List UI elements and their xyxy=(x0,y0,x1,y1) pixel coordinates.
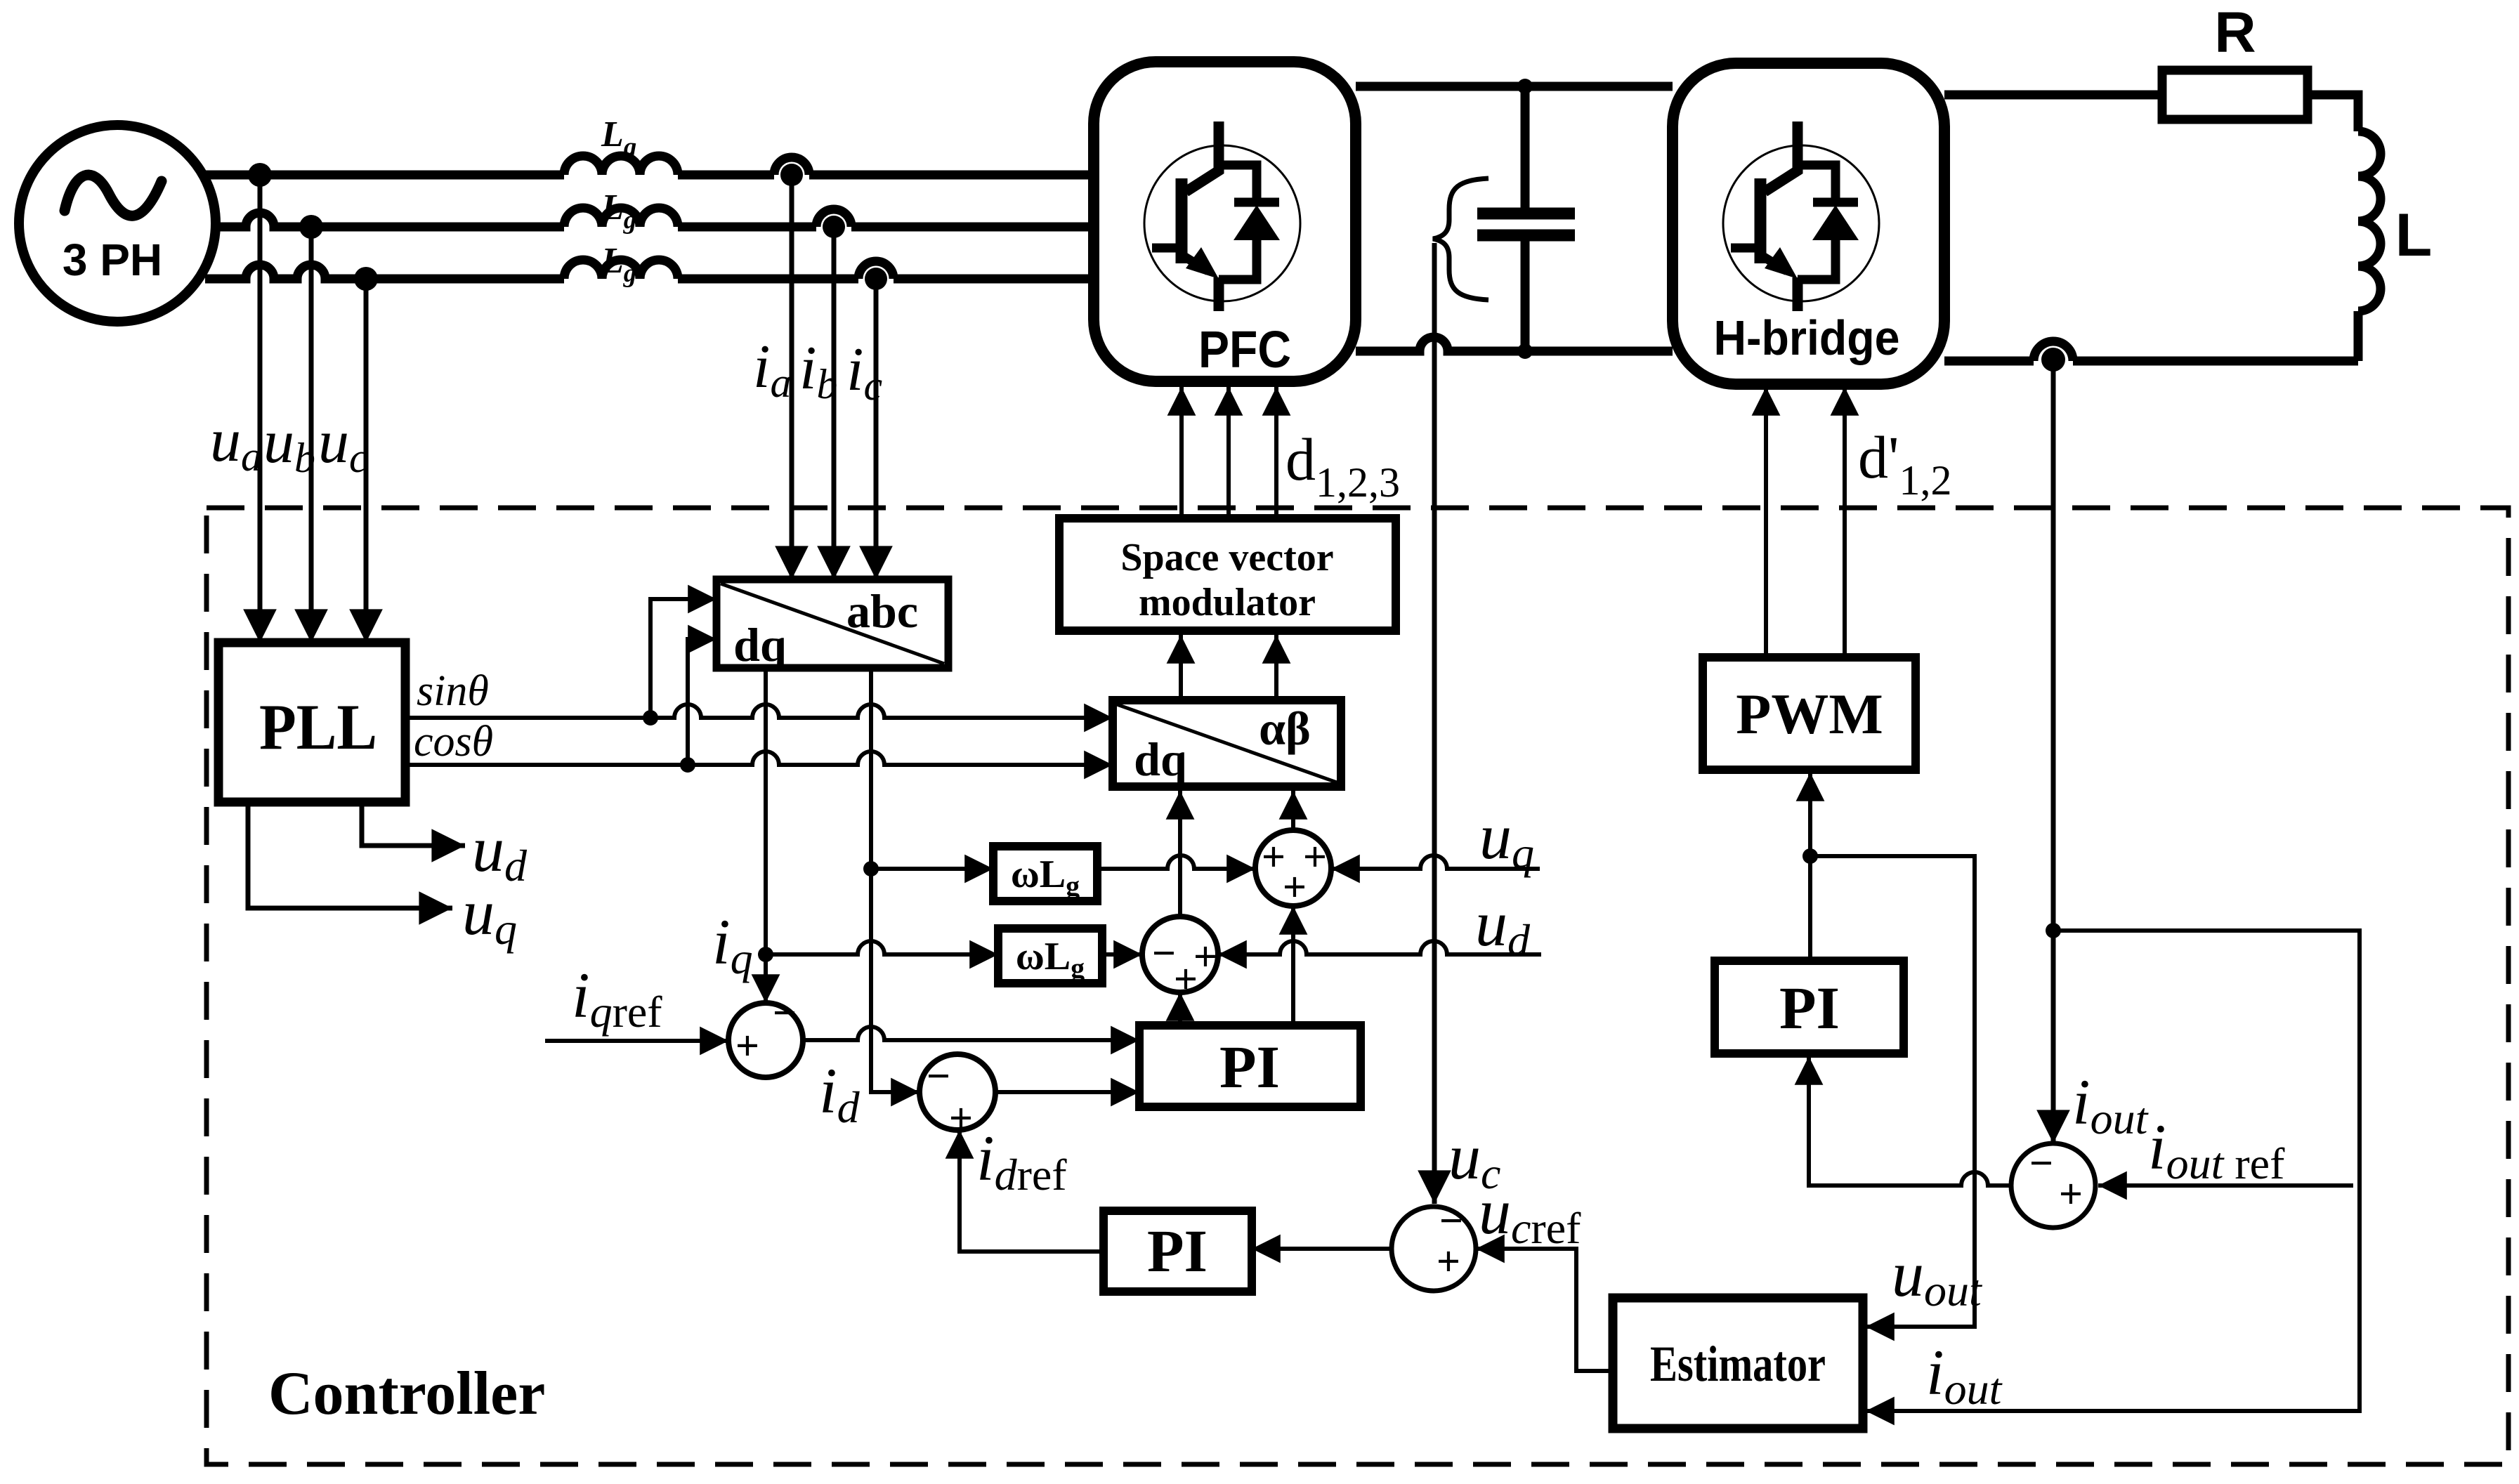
svg-text:PI: PI xyxy=(1779,974,1840,1042)
svg-text:−: − xyxy=(773,990,797,1036)
wire: iout error left and up into PI with hop over uout line xyxy=(1809,1056,2011,1186)
node iq junction xyxy=(758,947,773,962)
wire: idref from PI up into id summing junction xyxy=(960,1130,1104,1252)
summing junction +++ xyxy=(1255,830,1331,910)
svg-text:PWM: PWM xyxy=(1736,682,1883,746)
wire: cos(theta) from PLL to dq/ab with hops xyxy=(405,751,1113,765)
svg-text:PI: PI xyxy=(1219,1033,1280,1101)
svg-text:−: − xyxy=(927,1053,950,1099)
node capacitor bottom junction xyxy=(1517,343,1533,359)
wire: sin(theta) riser to dq/abc xyxy=(650,599,717,718)
wire: -++ output up to dq/ab xyxy=(1178,791,1182,917)
svg-text:PLL: PLL xyxy=(259,691,377,763)
wire: ub sense line to PLL xyxy=(309,227,314,643)
svg-text:R: R xyxy=(2214,1,2256,65)
wire: uc error to PI voltage controller xyxy=(1252,1247,1392,1251)
wire: ia sense line to dq/abc xyxy=(790,177,794,579)
wire: PLL ud output xyxy=(362,802,465,846)
wire: uout branch down to Estimator xyxy=(1810,856,1975,1327)
brace for uc measurement xyxy=(1433,178,1488,300)
wire: resistor to inductor L xyxy=(2308,95,2358,131)
wire: PWM gate signal d'1 to H-bridge xyxy=(1764,387,1768,657)
wire: PWM gate signal d'2 to H-bridge xyxy=(1843,387,1847,657)
wire: iq to lower wLg with hop over id line xyxy=(766,941,998,954)
block PI voltage controller xyxy=(1104,1211,1252,1292)
wire: uc sense line to PLL xyxy=(364,279,369,643)
IGBT symbol inside H-bridge xyxy=(1723,122,1879,311)
wire: id output of dq/abc down and into id summing junction xyxy=(871,668,920,1092)
wire: PLL uq output xyxy=(248,802,452,908)
wire: load bottom return to H-bridge with iout sensor gap xyxy=(1944,311,2358,361)
block dq/ab transform xyxy=(1113,700,1341,787)
inductor Lg (phase A) xyxy=(564,156,678,175)
3-phase source circle "3 PH" xyxy=(19,125,216,322)
node uc tap on phase C xyxy=(354,267,378,291)
IGBT symbol inside PFC xyxy=(1144,122,1300,311)
current sensor ia on phase A xyxy=(774,157,809,186)
current sensor ic on phase C xyxy=(858,261,894,290)
block wLg upper xyxy=(993,846,1097,902)
wire: iq error to PI with hop over id line xyxy=(803,1027,1139,1040)
wire: ud feedforward into -++ junction with hops xyxy=(1218,941,1541,954)
wire: modulator gate signal d3 to PFC xyxy=(1274,387,1278,518)
summing junction -++ xyxy=(1142,917,1218,1002)
summing junction iq (+,-) xyxy=(728,990,803,1077)
svg-text:L: L xyxy=(2395,202,2433,269)
wire: modulator gate signal d2 to PFC xyxy=(1226,387,1231,518)
block PI current controller xyxy=(1139,1025,1361,1107)
block wLg lower xyxy=(998,928,1102,984)
svg-text:sinθ: sinθ xyxy=(417,667,489,715)
block Space vector modulator xyxy=(1059,518,1396,631)
summing junction id (-,+) xyxy=(920,1053,995,1141)
wire: DC top bus PFC to H-bridge xyxy=(1356,82,1673,91)
capacitor C (DC link) xyxy=(1477,86,1575,351)
wire: uq feedforward into +++ junction with hop over uc line xyxy=(1331,855,1540,869)
svg-text:PFC: PFC xyxy=(1198,320,1291,379)
wire: iout sense line down to summing junction xyxy=(2051,361,2056,1143)
summing junction iout (-,+) xyxy=(2011,1140,2095,1228)
summing junction uc (-,+) xyxy=(1392,1197,1476,1291)
svg-text:+: + xyxy=(1174,956,1198,1002)
wire: id error to PI xyxy=(995,1090,1139,1094)
node iout branch junction xyxy=(2046,923,2061,938)
svg-text:Controller: Controller xyxy=(268,1360,545,1428)
node capacitor top junction xyxy=(1517,79,1533,94)
converter PFC block xyxy=(1094,62,1356,381)
svg-text:dq: dq xyxy=(733,618,787,671)
wire: iout branch right and down to Estimator xyxy=(1866,931,2360,1411)
svg-text:−: − xyxy=(1152,930,1176,976)
wire: iq output of dq/abc down to summing junction xyxy=(764,668,768,1003)
node ub tap on phase B xyxy=(299,215,323,239)
svg-text:H-bridge: H-bridge xyxy=(1714,310,1900,365)
svg-text:Estimator: Estimator xyxy=(1650,1336,1826,1392)
block PI output current controller xyxy=(1715,961,1904,1053)
svg-text:+: + xyxy=(1437,1238,1460,1285)
wire: phase A with Lg inductor gap and current-sensor gap xyxy=(205,171,1094,180)
inductor L (load) xyxy=(2358,131,2381,311)
current sensor iout on return wire xyxy=(2034,341,2073,372)
wire: +++ output up to dq/ab xyxy=(1291,791,1295,830)
svg-text:+: + xyxy=(1283,864,1307,910)
svg-text:cosθ: cosθ xyxy=(414,718,493,766)
svg-text:modulator: modulator xyxy=(1139,581,1316,624)
wire: ioutref input xyxy=(2098,1183,2353,1188)
resistor R xyxy=(2162,70,2308,119)
controller dashed boundary xyxy=(207,508,2508,1464)
svg-text:+: + xyxy=(735,1023,759,1069)
wire: phase B with hop over ua line, Lg gap, sensor gap xyxy=(215,213,1094,227)
wire: uc sense line down to controller xyxy=(1432,243,1437,1204)
wire: dq/ab beta output to modulator xyxy=(1274,635,1278,700)
wire: ic sense line to dq/abc xyxy=(874,281,879,579)
svg-text:αβ: αβ xyxy=(1259,702,1311,755)
inductor Lg (phase B) xyxy=(564,208,678,227)
wire: PI output up to PWM xyxy=(1808,773,1812,961)
inductor Lg (phase C) xyxy=(564,260,678,279)
current sensor ib on phase B xyxy=(816,209,851,238)
node cos(theta) junction xyxy=(680,757,695,773)
node sin(theta) junction xyxy=(643,710,658,725)
svg-text:abc: abc xyxy=(846,584,918,638)
wire: PI output up to -++ junction xyxy=(1178,992,1182,1025)
wire: dq/ab alpha output to modulator xyxy=(1179,635,1183,700)
block PWM xyxy=(1703,657,1916,770)
block Estimator xyxy=(1613,1298,1863,1429)
wire: ib sense line to dq/abc xyxy=(832,229,837,579)
converter H-bridge block xyxy=(1673,63,1944,384)
node uout tap junction xyxy=(1802,848,1818,864)
wire: H-bridge output top to resistor xyxy=(1944,91,2162,100)
wire: PI output up to +++ junction xyxy=(1291,906,1295,1025)
svg-text:−: − xyxy=(2029,1140,2053,1186)
svg-text:dq: dq xyxy=(1134,733,1187,786)
wire: ucref from Estimator into uc junction xyxy=(1476,1249,1613,1371)
wire: iqref input xyxy=(545,1039,728,1043)
wire: id to upper wLg xyxy=(871,867,993,871)
block dq/abc transform xyxy=(717,579,948,671)
node ua tap on phase A xyxy=(248,163,272,187)
svg-text:3 PH: 3 PH xyxy=(63,235,162,285)
wire: cos(theta) riser to dq/abc xyxy=(688,639,717,765)
node id junction xyxy=(863,861,879,876)
svg-text:Space vector: Space vector xyxy=(1120,536,1333,579)
wire: ua sense line to PLL xyxy=(258,175,263,643)
svg-text:+: + xyxy=(2059,1171,2083,1217)
wire: upper wLg output to +++ junction with hop xyxy=(1097,855,1255,869)
wire: sin(theta) from PLL to dq/ab with hops xyxy=(405,704,1113,718)
wire: phase C with hops over ua,ub lines, Lg gap, sensor gap xyxy=(205,265,1094,279)
wire: lower wLg output to -++ junction xyxy=(1102,952,1142,957)
wire: DC bottom bus with hop over uc sense line xyxy=(1356,337,1673,351)
block PLL xyxy=(218,643,405,802)
wire: modulator gate signal d1 to PFC xyxy=(1179,387,1184,518)
svg-text:−: − xyxy=(1439,1197,1463,1244)
svg-text:PI: PI xyxy=(1147,1217,1208,1285)
